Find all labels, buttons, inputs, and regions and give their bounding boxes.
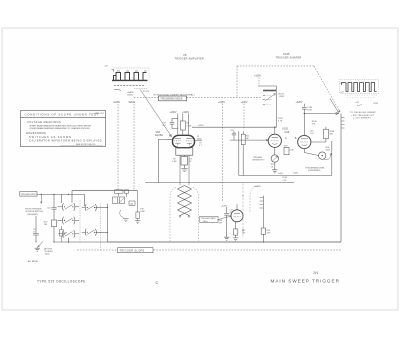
dashed mode line right <box>187 97 262 99</box>
winding riser left <box>179 155 181 185</box>
plate output wire to shaper <box>192 126 277 128</box>
svg-text:SENSITIVITY: SENSITIVITY <box>252 160 265 162</box>
svg-text:(CENTERED): (CENTERED) <box>308 170 321 172</box>
svg-text:ALL METAL: ALL METAL <box>28 260 38 263</box>
grid entry wire <box>218 216 231 220</box>
svg-text:( +GO SWEEP ): ( +GO SWEEP ) <box>353 118 371 120</box>
wire right column to riser <box>95 207 107 209</box>
shield dome dashed left <box>170 188 176 242</box>
rail resistor box <box>261 228 265 234</box>
wire up-and-over to coupling <box>72 191 138 203</box>
wire to level pot <box>304 153 318 156</box>
svg-text:SWP: SWP <box>279 96 285 98</box>
G_V8 center amplifier stage <box>140 89 277 182</box>
stub below boxes <box>118 193 120 197</box>
svg-text:GATE: GATE <box>114 101 121 104</box>
stub to switch arm <box>35 235 37 241</box>
dash-dot link x243 <box>242 184 244 239</box>
svg-text:R159: R159 <box>374 103 379 105</box>
connector box DC <box>125 190 129 193</box>
svg-text:WAVEFORMS: WAVEFORMS <box>26 131 46 135</box>
svg-text:+GATE OUT: +GATE OUT <box>93 112 105 115</box>
tube1 plate bar <box>272 137 279 139</box>
tube V8A envelope (stadium capsule) <box>173 135 195 147</box>
G_WAVE_TR top-right waveform figure <box>340 80 379 120</box>
level pot curved arrow <box>324 153 332 159</box>
dashed drop x237 <box>236 66 238 98</box>
svg-text:250K: 250K <box>326 150 331 152</box>
svg-text:47: 47 <box>229 212 231 214</box>
pot ticks <box>263 95 266 97</box>
tube2 plate bar <box>301 138 308 140</box>
svg-text:A: A <box>197 134 199 138</box>
stub resistor down <box>53 227 55 243</box>
resistor box pair <box>113 197 118 204</box>
pot ladder top bar <box>258 85 277 87</box>
resistor R5 1M box <box>60 230 64 236</box>
grid resistor R21 box <box>241 134 245 144</box>
dashed stub from +100V <box>258 78 260 86</box>
cap C10 plates <box>52 206 57 208</box>
svg-text:V8: V8 <box>183 53 187 57</box>
square wave trace <box>346 83 377 92</box>
grid pin B <box>167 139 173 141</box>
node dot on input wire <box>41 194 42 195</box>
wire L3 bottom to bus <box>68 238 70 242</box>
switch unit L3 <box>62 230 75 238</box>
svg-text:WAVE: WAVE <box>129 101 136 104</box>
svg-text:1M: 1M <box>246 138 249 140</box>
connector comb stubs <box>341 117 345 119</box>
tube plate stub up <box>236 204 238 210</box>
ground under grid resistor <box>135 221 140 224</box>
svg-text:ADJ): ADJ) <box>45 253 50 256</box>
ganged link dashed x100.5 <box>100 204 102 251</box>
tube V8A cathode ticks <box>178 143 190 145</box>
svg-text:+225V: +225V <box>218 101 225 104</box>
pickoff tube envelope <box>231 210 243 222</box>
stub to ground <box>235 235 237 238</box>
waveform corner tick <box>112 70 114 72</box>
svg-text:C: C <box>156 280 159 285</box>
triggering mode box <box>159 96 187 101</box>
switch terminal stubs left column <box>58 207 80 234</box>
svg-text:SWITCHES AS SHOWN: SWITCHES AS SHOWN <box>29 135 72 139</box>
ground under R17 <box>233 238 238 241</box>
svg-text:+GATE: +GATE <box>254 185 262 188</box>
svg-text:MAIN SWEEP TRIGGER: MAIN SWEEP TRIGGER <box>271 279 340 284</box>
svg-text:2.7K: 2.7K <box>282 180 287 182</box>
cap C16 lower stub <box>226 215 228 237</box>
bottom bus wire <box>107 241 341 243</box>
tube1 envelope <box>268 134 281 147</box>
resistor R10 box <box>51 220 56 227</box>
svg-text:1.8K: 1.8K <box>172 161 177 163</box>
svg-text:+ SW TRIGGER CKT: + SW TRIGGER CKT <box>351 115 375 117</box>
cathode resistor R23 box <box>284 147 289 154</box>
svg-text:+100V: +100V <box>170 111 177 114</box>
tube V8A internal cathodes <box>175 142 180 144</box>
dashed gate drop x118 <box>117 104 119 190</box>
conditions box title rule <box>21 116 106 118</box>
vertical to grid resistor <box>137 191 139 212</box>
square wave leading step <box>342 83 347 85</box>
switch unit R2 <box>85 229 96 236</box>
pot ground stub <box>274 162 276 170</box>
supply drop left <box>177 114 179 135</box>
dashed supply drop x244 <box>243 104 245 131</box>
pickoff tube plate <box>234 213 240 215</box>
svg-text:+100V: +100V <box>254 75 261 78</box>
pulse top ticks <box>117 70 147 72</box>
plate resistor R8 box <box>180 121 185 130</box>
grid wire into tube1 <box>230 139 268 141</box>
ground under pot <box>272 170 277 173</box>
solid diagonal into junction <box>330 99 339 114</box>
svg-text:R23: R23 <box>284 145 287 147</box>
svg-text:CALIBRATOR WAVEFORM BEING DISP: CALIBRATOR WAVEFORM BEING DISPLAYED <box>29 140 102 143</box>
G_DELAY heater winding / delay line <box>145 155 294 241</box>
switch unit L1 <box>62 203 75 211</box>
tube cathode stub down <box>235 222 237 229</box>
G_SWPPOT swp magnifier pot upper right of center <box>254 75 285 128</box>
switch unit L2 <box>62 217 75 225</box>
connector ticks <box>260 197 264 199</box>
waveform box (dashed top and sides) <box>114 67 150 69</box>
winding junction dots <box>184 192 185 193</box>
svg-text:TO DELAYING SWEEP: TO DELAYING SWEEP <box>350 111 376 114</box>
node dot branch x54 <box>53 194 54 195</box>
tube1 cathode <box>272 142 277 145</box>
G_LOWER lower pickoff stage <box>53 184 341 243</box>
right pin wire <box>195 140 203 142</box>
G_CONDBOX conditions of scope under test <box>21 111 106 147</box>
stage frame right edge <box>331 141 333 176</box>
svg-text:TYPE 515 OSCILLOSCOPE: TYPE 515 OSCILLOSCOPE <box>37 280 86 284</box>
cathode stub <box>184 155 186 156</box>
tube1 grid dashes <box>271 140 279 142</box>
G_INPUT trigger input and coupling switch stage <box>20 192 85 263</box>
svg-text:UPPER BEAM READINGS MEASURED W: UPPER BEAM READINGS MEASURED W/20,000 OH… <box>29 125 92 128</box>
pot wiper arrow <box>265 94 276 101</box>
dashed bus top y66 <box>237 65 314 67</box>
svg-text:JVL: JVL <box>313 271 319 275</box>
shield dome dashed right <box>193 188 199 242</box>
supply stub <box>226 207 228 213</box>
supply drop right <box>187 114 189 135</box>
svg-text:TRIGGER RATE: TRIGGER RATE <box>201 217 217 220</box>
G_MODE boxed labels on dashed lines <box>118 93 248 252</box>
ganged link dashed x80 <box>79 201 81 244</box>
connector box AC <box>115 190 124 193</box>
svg-text:+225V: +225V <box>296 101 303 104</box>
plate wire down to tube2 <box>303 109 305 135</box>
grid2 wire <box>311 141 326 143</box>
tube2 envelope <box>298 135 311 148</box>
branch x54 stub <box>53 194 55 207</box>
dashed bottom boundary left <box>77 249 117 251</box>
switch terminal stubs right column <box>82 208 86 233</box>
svg-text:270K: 270K <box>187 125 192 127</box>
capacitor C136 plates <box>302 106 307 108</box>
svg-text:TRIGGER SLOPE: TRIGGER SLOPE <box>120 249 145 253</box>
ground mid <box>123 219 128 222</box>
shield arc dashed <box>250 187 256 214</box>
svg-text:CONDITIONS OF SCOPE UNDER TEST: CONDITIONS OF SCOPE UNDER TEST <box>25 113 100 117</box>
switch arm diag <box>118 198 125 204</box>
svg-text:LOWER BEAM READINGS MEASURED T: LOWER BEAM READINGS MEASURED TO CHASSIS … <box>29 127 90 130</box>
svg-text:2.7K: 2.7K <box>278 121 283 123</box>
cathode ground stub <box>184 165 186 169</box>
svg-text:1.5-7: 1.5-7 <box>310 133 314 135</box>
svg-text:+100V: +100V <box>241 101 248 104</box>
grid2 resistor box R136 <box>323 129 328 138</box>
stub below +225V <box>303 104 305 107</box>
svg-text:6U8: 6U8 <box>285 131 290 134</box>
grid return wire to bus <box>158 140 167 183</box>
G_SHAPEROUT +225V feed and output wire to junction <box>296 99 345 243</box>
faint baseline rows <box>345 94 377 96</box>
svg-text:-100V: -100V <box>293 173 299 175</box>
cathode resistor R17 box <box>234 229 238 235</box>
svg-text:(SEL): (SEL) <box>203 221 208 223</box>
square wave trace <box>114 73 147 81</box>
svg-text:C20: C20 <box>230 130 233 132</box>
svg-text:6AU8A: 6AU8A <box>155 134 163 137</box>
rail stub to bus <box>262 234 264 242</box>
switch unit R1 <box>85 204 96 211</box>
node dot at plate/output <box>304 113 305 114</box>
dashed diagonal to junction <box>314 66 340 112</box>
level pot circle <box>319 152 326 159</box>
svg-text:+GATE: +GATE <box>127 91 135 94</box>
coupling cap C8 stub <box>172 119 178 129</box>
stage frame left edge <box>238 131 240 175</box>
svg-text:4.7: 4.7 <box>199 145 202 147</box>
svg-text:TRIGGER INPUT: TRIGGER INPUT <box>21 194 37 196</box>
svg-text:100: 100 <box>130 203 133 205</box>
input wire <box>37 193 85 195</box>
connector rail <box>262 196 264 228</box>
wire pot to plate bus <box>276 86 278 127</box>
stage frame bottom edge <box>239 175 332 177</box>
svg-text:TO V8: TO V8 <box>143 91 150 93</box>
dashed wave drop x134 <box>133 104 135 190</box>
bus wire y182.5 <box>145 182 294 184</box>
svg-text:-100V: -100V <box>278 173 284 175</box>
svg-text:TRIGGER AMPLIFIER: TRIGGER AMPLIFIER <box>175 57 205 61</box>
square wave baseline (thick) <box>112 79 148 81</box>
tube1 plate stub to bus <box>274 127 276 134</box>
svg-text:(TRIGGER): (TRIGGER) <box>27 214 38 216</box>
conditions box frame <box>21 111 106 147</box>
wiper arc <box>120 210 124 218</box>
winding end terminals <box>179 215 181 217</box>
G_DASH interconnect dashed lines <box>77 66 342 250</box>
svg-text:TRIGGER SHAPER: TRIGGER SHAPER <box>276 55 302 59</box>
grid pin A <box>197 138 202 140</box>
winding riser right <box>188 155 190 185</box>
wire top unit to input wire <box>61 194 63 203</box>
G_SWCLUSTER coupling switch wafer cluster <box>54 191 138 250</box>
svg-text:V135: V135 <box>283 52 290 56</box>
sel 100 box <box>129 201 135 205</box>
G_SHAPER right trigger shaper stage <box>230 127 334 176</box>
junction arrowheads <box>336 110 340 115</box>
svg-text:(50V): (50V) <box>128 95 134 97</box>
svg-text:TRIGGERING MODE: TRIGGERING MODE <box>160 99 183 101</box>
tube V8A internal plates <box>175 138 182 140</box>
cap C5 plates <box>33 232 38 234</box>
cathode1 stub <box>274 147 276 155</box>
tube2 grid dashes <box>301 141 309 143</box>
svg-text:+100V: +100V <box>182 111 189 114</box>
input cap C20 plates <box>232 132 236 134</box>
stub cap to resistor <box>53 209 55 220</box>
cap C16 plates <box>224 212 229 214</box>
svg-text:FROM TRIGGER: FROM TRIGGER <box>25 209 42 211</box>
G_COUPLING components right of switches <box>113 190 146 224</box>
ground left <box>35 248 40 251</box>
dashed supply drop x222.5 <box>222 104 224 203</box>
tube V8A internal grids <box>174 140 181 142</box>
tube2 cathode <box>302 144 307 147</box>
svg-text:680: 680 <box>330 134 333 136</box>
bus junction dots <box>263 241 264 242</box>
bottom bus left riser <box>106 204 108 243</box>
svg-text:100K: 100K <box>140 211 145 213</box>
ground under C16 <box>224 237 229 240</box>
branch x36 stub <box>35 216 37 233</box>
trigger slope box on bottom dashed line <box>118 248 154 253</box>
dashed bottom boundary right <box>154 249 343 251</box>
cap stubs <box>233 131 235 133</box>
switch arm <box>39 241 43 246</box>
svg-text:VOLTAGE READINGS: VOLTAGE READINGS <box>27 120 61 124</box>
sensitivity pot circle <box>271 155 278 162</box>
square wave top emphasis <box>348 82 373 84</box>
waveform box dashed <box>340 80 379 94</box>
waveform sub trace <box>114 84 145 86</box>
gate pointer arrow <box>114 90 121 91</box>
pickoff tube grid <box>234 215 241 217</box>
cap C8 plates <box>170 121 175 123</box>
svg-text:SOURCE SWITCH: SOURCE SWITCH <box>25 211 43 213</box>
arrow stub down from input <box>40 194 42 203</box>
pot ladder thick bar <box>263 90 276 92</box>
pointer diagonal from waveform <box>140 89 172 136</box>
wire input to right column <box>84 194 86 206</box>
cathode resistor R9 box <box>181 157 188 166</box>
trigger input box <box>20 192 37 197</box>
output wire to junction <box>304 113 338 115</box>
winding diamonds <box>178 186 192 216</box>
right boundary drop x341 <box>340 114 342 243</box>
ground symbol under tube <box>181 169 188 172</box>
dashed mode line left <box>134 97 158 99</box>
G_WAVE_TL top-left gate waveform figure <box>93 66 150 116</box>
tube V8A socket box <box>176 148 193 156</box>
holdoff label box <box>200 216 218 222</box>
node dot branch x68.5 <box>68 194 69 195</box>
svg-text:C10: C10 <box>47 207 50 209</box>
G_TITLES <box>37 52 340 285</box>
grid resistor box <box>136 212 140 218</box>
cathode2 stub <box>303 149 305 153</box>
svg-text:+4V: +4V <box>355 102 359 104</box>
